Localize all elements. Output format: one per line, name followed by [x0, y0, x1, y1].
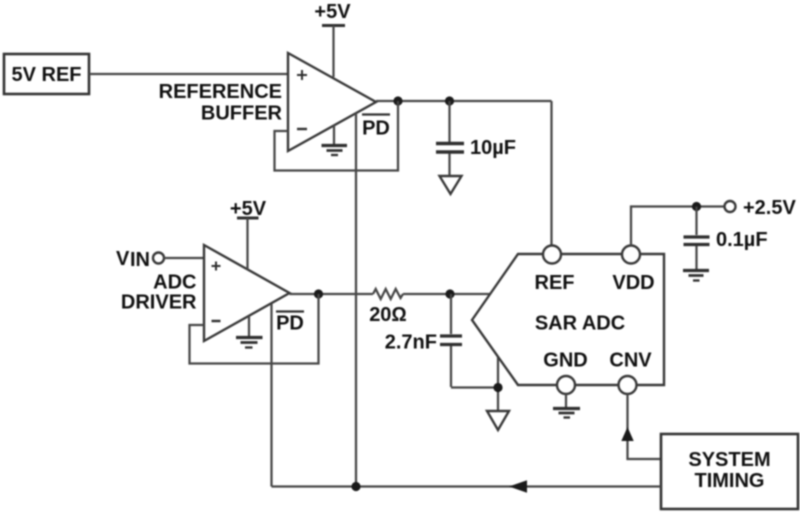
- wire 2.7nF bottom to analog ground junction: [451, 386, 498, 388]
- ground (10uF, open triangle): [440, 176, 462, 194]
- +5V supply (reference buffer): [314, 1, 351, 77]
- ground (analog, open triangle): [487, 411, 509, 430]
- svg-text:+5V: +5V: [314, 1, 351, 23]
- wire 5V REF to buffer + input: [89, 73, 288, 75]
- wire PD line (ADC driver) to bottom bus: [270, 304, 272, 487]
- svg-text:BUFFER: BUFFER: [201, 103, 283, 125]
- wire PD bus from system timing: [272, 485, 662, 487]
- node 0.1uF tap: [692, 202, 701, 211]
- wire VDD pin to +2.5V: [631, 207, 725, 246]
- capacitor 2.7nF: [385, 294, 462, 387]
- node driver output / feedback tap: [314, 289, 323, 298]
- svg-text:REF: REF: [535, 272, 575, 294]
- svg-text:PD: PD: [362, 118, 390, 140]
- svg-text:REFERENCE: REFERENCE: [159, 81, 282, 103]
- label VIN: [116, 248, 150, 271]
- pin VDD: [622, 246, 640, 264]
- pin label PD (ADC driver, active-low): [276, 312, 304, 335]
- capacitor 10uF: [436, 101, 516, 176]
- svg-text:20Ω: 20Ω: [369, 304, 407, 326]
- svg-text:SAR ADC: SAR ADC: [535, 313, 625, 335]
- ground (GND pin): [553, 394, 580, 418]
- SAR ADC body: [472, 254, 664, 385]
- wire buffer output to REF pin: [550, 101, 552, 246]
- op-amp U2 ADC driver: [204, 245, 290, 341]
- pin CNV: [619, 376, 637, 394]
- arrow into CNV: [621, 427, 633, 441]
- svg-text:GND: GND: [543, 350, 587, 372]
- pin GND: [557, 376, 575, 394]
- svg-text:DRIVER: DRIVER: [121, 292, 197, 314]
- node buffer output / feedback tap: [393, 96, 402, 105]
- wire buffer output: [376, 100, 552, 102]
- capacitor 0.1uF: [684, 207, 768, 270]
- label REFERENCE BUFFER: [159, 81, 283, 125]
- ground (ADC driver V-): [236, 316, 263, 348]
- label ADC DRIVER: [121, 272, 197, 314]
- svg-text:5V REF: 5V REF: [11, 64, 81, 86]
- svg-text:TIMING: TIMING: [695, 470, 765, 492]
- svg-text:0.1µF: 0.1µF: [716, 229, 768, 251]
- node PD bus / buffer PD: [351, 482, 360, 491]
- svg-text:V: V: [116, 248, 130, 270]
- svg-text:CNV: CNV: [609, 350, 652, 372]
- svg-text:VDD: VDD: [612, 272, 654, 294]
- wire PD line (reference buffer) to bottom bus: [355, 113, 357, 487]
- svg-text:ADC: ADC: [153, 272, 196, 294]
- resistor 20R: [369, 289, 407, 326]
- svg-text:IN: IN: [130, 249, 150, 271]
- wire feedback loop (reference buffer): [275, 101, 399, 171]
- op-amp U1 reference buffer: [288, 53, 376, 151]
- svg-text:SYSTEM: SYSTEM: [688, 449, 770, 471]
- svg-text:+2.5V: +2.5V: [743, 197, 796, 219]
- pin REF: [543, 246, 561, 264]
- terminal +2.5V: [725, 201, 736, 212]
- node 2.7nF tap: [445, 289, 454, 298]
- +5V supply (ADC driver): [230, 198, 267, 270]
- svg-text:PD: PD: [276, 313, 304, 335]
- SYSTEM TIMING box: [661, 434, 798, 509]
- wire VIN to driver + input: [164, 257, 204, 259]
- ground (reference buffer V-): [322, 125, 348, 155]
- svg-text:10µF: 10µF: [470, 137, 516, 159]
- wire ADC edge tap to ground: [497, 357, 499, 412]
- arrow on PD bus: [509, 480, 527, 492]
- wire driver output to ADC input: [290, 293, 374, 295]
- ground (0.1uF): [683, 271, 709, 281]
- svg-text:2.7nF: 2.7nF: [385, 332, 437, 354]
- pin label PD (reference buffer, active-low): [362, 115, 390, 140]
- node 10uF tap: [445, 96, 454, 105]
- wire CNV pin to system timing: [628, 394, 662, 459]
- node analog ground junction: [493, 383, 502, 392]
- 5V REF source box: [4, 54, 89, 94]
- terminal VIN: [153, 253, 164, 264]
- wire feedback loop (ADC driver): [190, 294, 319, 364]
